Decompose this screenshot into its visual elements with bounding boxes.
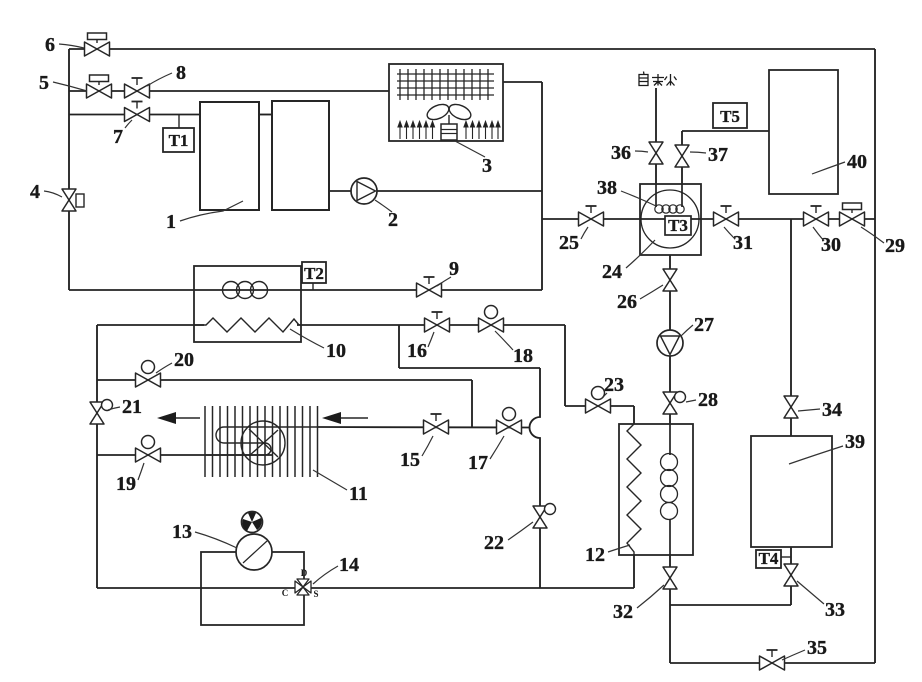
heat exchanger 12 box [619,424,693,555]
label 7 [113,120,132,148]
valve 18 [479,306,504,333]
pipe tank1-tank2 link [259,114,272,116]
svg-text:19: 19 [116,473,136,495]
heat exchanger 12 coil [661,454,678,520]
svg-text:D: D [301,568,308,578]
valve 8 [125,78,150,98]
valve 21 [90,400,113,425]
pipe through compressor shell [97,587,634,589]
valve 29 [840,203,865,226]
valve 15 [424,414,449,434]
label 1 [166,201,243,233]
svg-text:39: 39 [845,431,865,453]
air arrow left [157,412,200,424]
pipe x540 with hop over y427 [530,368,541,588]
label 10 [290,329,346,362]
fan coil unit 3 grid [397,69,494,100]
valve 16 [425,312,450,332]
label 4 [30,181,62,203]
sensor T5 [713,103,747,128]
svg-text:3: 3 [482,155,492,177]
pipe x791 upper drop [790,219,792,436]
svg-text:16: 16 [407,340,427,362]
svg-text:20: 20 [174,349,194,371]
valve 6 [85,33,110,56]
svg-text:34: 34 [822,399,842,421]
svg-text:T3: T3 [668,216,688,235]
air arrow right [322,412,368,424]
pipe fancoil outlet [503,81,542,83]
label 27 [681,314,714,336]
compressor 13 body [236,534,272,570]
pipe y219 to tank24 [542,218,640,220]
fan coil unit 3 motor box [441,124,457,140]
svg-text:21: 21 [122,396,142,418]
label 3 [455,141,492,177]
valve 23 [586,387,611,414]
label 8 [147,62,186,86]
sensor T2 [302,262,326,290]
label 11 [313,470,368,505]
svg-text:7: 7 [113,126,123,148]
svg-text:13: 13 [172,521,192,543]
tap water label [639,72,677,86]
pipe inside tank24 left [655,184,657,207]
pump 27 [657,330,683,356]
svg-text:11: 11 [349,483,368,505]
pipe y368 link [399,367,540,369]
label 37 [690,144,728,166]
fan coil unit 3 fan blades [425,101,473,124]
label 28 [686,389,718,411]
storage tank 39 [751,436,832,547]
label 19 [116,463,144,495]
svg-text:30: 30 [821,234,841,256]
valve 33 [784,564,798,586]
fan coil unit 3 air arrows [398,122,500,140]
label 38 [597,177,656,206]
valve 32 [663,567,677,589]
label 39 [789,431,865,464]
valve 5 [87,75,112,98]
four-way valve 14 [282,568,319,599]
pipe inside tank24 right [681,184,683,207]
compressor 13 shell [201,552,304,625]
svg-text:C: C [282,588,289,598]
valve 4 [62,189,84,211]
pipe top header [69,48,875,50]
evaporator 11 serpentine [205,427,318,455]
valve 30 [804,206,829,226]
label 26 [617,285,663,313]
pipe bottom y588 [97,587,634,589]
tank 1 right vessel [272,101,329,210]
pipe riser x542 [541,82,543,290]
tank 1 left vessel [200,102,259,210]
label 5 [39,72,87,94]
storage tank 40 [769,70,838,194]
label 13 [172,521,237,548]
heat exchanger 10 zigzag [194,318,299,332]
label 21 [108,396,142,418]
svg-text:T4: T4 [759,549,779,568]
svg-text:33: 33 [825,599,845,621]
pipe tank24 bottom drop x670 [669,255,671,424]
valve 7 [125,102,150,122]
label 33 [797,581,845,621]
heat exchanger 12 zigzag [627,424,641,555]
valve 22 [533,504,556,529]
svg-text:26: 26 [617,291,637,313]
valve 37 [675,145,689,167]
pump 2 [351,178,377,204]
hot water tank 24 circle [641,190,699,248]
pipe y605 link [670,604,791,606]
pipe x791 lower drop [790,547,792,605]
coil 38 in tank24 [655,205,684,213]
pipe left border [68,49,70,290]
pipe pump2 line [329,190,542,192]
pipe tank24 outlet y219 [701,218,875,220]
pipe x399 drop [398,325,400,368]
valve 26 [663,269,677,291]
valve 20 [136,361,161,388]
svg-text:14: 14 [339,554,359,576]
pipe T5 line y131 [682,130,769,132]
valve 28 [663,392,686,415]
label 12 [585,544,630,566]
evaporator 11 fan [241,421,285,465]
valve 19 [136,436,161,463]
svg-text:28: 28 [698,389,718,411]
svg-text:29: 29 [885,235,905,257]
label 30 [813,227,841,256]
svg-text:18: 18 [513,345,533,367]
label 31 [724,227,753,254]
label 24 [602,240,655,283]
svg-text:40: 40 [847,151,867,173]
compressor 13 motor [242,512,263,533]
label 40 [812,151,867,174]
pipe box12 coil feed [669,424,671,455]
pipe T5 drop x682 [681,131,683,208]
label 18 [495,331,533,367]
valve 31 [714,206,739,226]
svg-text:S: S [313,589,318,599]
label 15 [400,436,433,471]
pipe coil link in box12 [669,424,671,455]
svg-text:10: 10 [326,340,346,362]
pipe right border [874,49,876,663]
pipe supply y91 [69,90,389,92]
valve 9 [417,277,442,297]
hot water tank 24 box [640,184,701,255]
sensor T1 [163,115,194,153]
svg-text:35: 35 [807,637,827,659]
pipe x472 drop [471,380,473,427]
label 35 [782,637,827,660]
label 36 [611,142,648,164]
label 29 [861,227,905,257]
pipe y380 valve20 line [97,379,472,381]
label 9 [437,258,459,286]
svg-text:37: 37 [708,144,728,166]
svg-text:15: 15 [400,449,420,471]
svg-text:32: 32 [613,601,633,623]
svg-text:T5: T5 [720,107,740,126]
pipe y325 main right [297,324,565,326]
svg-text:2: 2 [388,209,398,231]
svg-text:25: 25 [559,232,579,254]
label 20 [156,349,194,373]
pipe left frame x97 [96,325,98,588]
svg-text:T1: T1 [169,131,189,150]
svg-text:27: 27 [694,314,714,336]
label 22 [484,522,533,554]
svg-text:36: 36 [611,142,631,164]
svg-text:6: 6 [45,34,55,56]
svg-text:8: 8 [176,62,186,84]
pipe coil outlet in box12 [669,519,671,555]
svg-text:T2: T2 [304,264,324,283]
pipe y406 valve23 line [565,405,634,407]
pipe y427 valve15-17 line [318,426,530,429]
pipe y325 main left [97,324,204,326]
label 17 [468,436,504,474]
svg-text:23: 23 [604,374,624,396]
label 16 [407,332,434,362]
sensor T3 [665,216,691,235]
valve 17 [497,408,522,435]
pipe x565 drop [564,325,566,406]
valve 25 [579,206,604,226]
heat exchanger 10 coil [223,282,268,299]
pipe box12 coil out [669,519,671,605]
evaporator 11 fins [205,406,318,477]
svg-text:17: 17 [468,452,488,474]
valve 34 [784,396,798,418]
svg-text:5: 5 [39,72,49,94]
pipe return y114 [69,114,200,116]
pipe y290 main [69,289,542,291]
sensor T4 [756,549,791,568]
svg-text:24: 24 [602,261,622,283]
label 25 [559,227,588,254]
pipe bottom y663 [670,662,875,664]
label 6 [45,34,84,56]
valve 35 [760,650,785,670]
fan coil unit 3 box [389,64,503,141]
svg-text:1: 1 [166,211,176,233]
svg-text:12: 12 [585,544,605,566]
heat exchanger 10 box [194,266,301,342]
label 34 [798,399,842,421]
label 14 [313,554,359,584]
svg-text:38: 38 [597,177,617,199]
label 23 [601,374,624,399]
pipe tap water drop x656 [655,88,657,208]
pipe y455 valve19 line [97,454,272,456]
svg-text:22: 22 [484,532,504,554]
svg-text:4: 4 [30,181,40,203]
valve 36 [649,142,663,164]
pipe y219 through tank24 [640,218,701,220]
svg-text:31: 31 [733,232,753,254]
label 2 [375,200,398,231]
label 32 [613,585,664,623]
pipe x670 to bottom [669,605,671,663]
pipe box12 zigzag drop [633,406,635,588]
